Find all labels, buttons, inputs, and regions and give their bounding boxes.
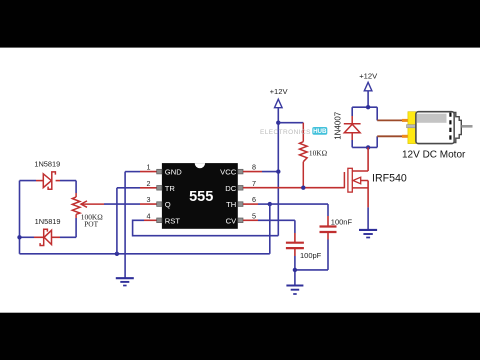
node bridge top dot bbox=[366, 105, 370, 109]
svg-text:3: 3 bbox=[147, 195, 151, 204]
wire motor to drain bbox=[367, 147, 369, 171]
svg-text:GND: GND bbox=[165, 168, 182, 177]
svg-text:RST: RST bbox=[165, 216, 181, 225]
wire motor top lead bbox=[377, 107, 408, 120]
svg-text:1: 1 bbox=[147, 163, 151, 172]
svg-text:POT: POT bbox=[84, 219, 98, 228]
wire pin3 Q to wiper bbox=[104, 203, 158, 205]
node pin7/10K dot bbox=[301, 186, 305, 190]
svg-text:8: 8 bbox=[252, 163, 256, 172]
svg-text:5: 5 bbox=[252, 211, 256, 220]
diode D1 1N5819 (points right, schottky) bbox=[43, 172, 55, 189]
wire C1 bottom to ground node bbox=[295, 232, 328, 270]
wire pin6 node down to rail bbox=[269, 204, 271, 254]
IC pin stubs right bbox=[238, 169, 243, 222]
svg-text:6: 6 bbox=[252, 195, 256, 204]
wire 10K branch horizontal bbox=[278, 122, 303, 124]
IC pin stubs left bbox=[157, 169, 162, 222]
ground symbol (under MOSFET) bbox=[359, 230, 377, 238]
power symbol +12V (left) bbox=[275, 99, 283, 108]
svg-text:100nF: 100nF bbox=[331, 218, 353, 227]
drain stub bbox=[352, 170, 368, 172]
wire pin2 TR bbox=[117, 188, 158, 254]
wire pin1 GND bbox=[125, 172, 158, 278]
node capacitors ground dot bbox=[293, 268, 297, 272]
node +12V / pin8 dot bbox=[276, 169, 280, 173]
wire bottom rail (TR/TH net) bbox=[20, 253, 270, 255]
top letterbox bar bbox=[0, 0, 480, 48]
potentiometer R1 100K POT bbox=[72, 193, 80, 218]
watermark ELECTRONICS HUB bbox=[260, 127, 327, 136]
wire left loop vertical (diode junction) bbox=[19, 181, 21, 254]
IC pin name labels bbox=[165, 168, 237, 226]
svg-text:+12V: +12V bbox=[270, 87, 289, 96]
wire diode branch leads bbox=[351, 107, 353, 147]
svg-text:1N5819: 1N5819 bbox=[35, 217, 61, 226]
svg-text:IRF540: IRF540 bbox=[372, 172, 407, 184]
node bridge bottom dot bbox=[366, 145, 370, 149]
transistor Q1 IRF540 MOSFET bbox=[344, 168, 368, 192]
svg-text:CV: CV bbox=[226, 216, 237, 225]
wire pot right branch bbox=[75, 181, 77, 238]
wire pin5 CV bbox=[243, 220, 295, 242]
node rail junction dot bbox=[115, 252, 119, 256]
power symbol +12V (right) bbox=[364, 82, 372, 91]
svg-text:Q: Q bbox=[165, 200, 171, 209]
pin numbers left 1-4 bbox=[147, 163, 151, 221]
wire pin6 TH bbox=[243, 203, 270, 205]
svg-text:VCC: VCC bbox=[220, 168, 237, 177]
ground symbol (under pin1) bbox=[116, 278, 134, 285]
svg-text:1N4007: 1N4007 bbox=[333, 111, 342, 140]
wire C2 bottom to ground bbox=[294, 248, 296, 285]
motor M1 12V DC Motor bbox=[407, 112, 473, 144]
wire top diode row bbox=[20, 180, 77, 182]
wire bridge bottom rail bbox=[352, 146, 377, 148]
wire motor bottom lead bbox=[377, 136, 408, 147]
wire bottom diode row bbox=[20, 236, 77, 238]
bottom letterbox bar bbox=[0, 313, 480, 360]
pot wiper arrow bbox=[81, 201, 104, 207]
svg-text:+12V: +12V bbox=[359, 72, 378, 81]
svg-text:12V DC Motor: 12V DC Motor bbox=[402, 150, 466, 161]
IC U1 555 timer body bbox=[162, 163, 238, 229]
node pin6 junction dot bbox=[268, 202, 272, 206]
wire bridge top rail bbox=[352, 106, 377, 108]
wire +12V to motor bridge bbox=[367, 91, 369, 107]
svg-text:TR: TR bbox=[165, 184, 176, 193]
diode D3 1N4007 (flyback, points up) bbox=[344, 124, 361, 133]
diode D2 1N5819 (points left, schottky) bbox=[40, 229, 51, 245]
svg-text:ELECTRONICS: ELECTRONICS bbox=[260, 129, 311, 136]
node diode junction dot bbox=[17, 235, 21, 239]
resistor R2 10K bbox=[300, 123, 308, 188]
capacitor C2 100pF bbox=[286, 243, 304, 248]
pin numbers right 8,7,6,5 bbox=[252, 163, 256, 221]
svg-text:2: 2 bbox=[147, 179, 151, 188]
svg-text:7: 7 bbox=[252, 179, 256, 188]
channel bar bbox=[348, 168, 352, 192]
wire pin4 RST to +12V rail bbox=[133, 220, 279, 235]
wire pin8 VCC bbox=[243, 171, 278, 173]
svg-text:100pF: 100pF bbox=[300, 251, 322, 260]
wire +12V vertical rail bbox=[277, 108, 279, 236]
capacitor C1 100nF bbox=[320, 227, 337, 233]
wire source to ground bbox=[367, 181, 369, 230]
gate bar bbox=[343, 172, 345, 188]
wire pin6 node to C1 bbox=[270, 204, 328, 226]
body arrow bbox=[353, 177, 361, 184]
svg-text:TH: TH bbox=[226, 200, 236, 209]
svg-text:DC: DC bbox=[225, 184, 236, 193]
svg-text:10KΩ: 10KΩ bbox=[309, 148, 328, 157]
svg-text:HUB: HUB bbox=[313, 128, 327, 135]
wire pin7 DC to gate bbox=[243, 187, 344, 189]
svg-text:4: 4 bbox=[147, 211, 151, 220]
ground symbol (under capacitors) bbox=[286, 286, 303, 295]
source stub bbox=[352, 187, 368, 189]
svg-text:1N5819: 1N5819 bbox=[34, 159, 60, 168]
node +12V / 10K branch dot bbox=[276, 121, 280, 125]
svg-text:555: 555 bbox=[189, 189, 213, 205]
